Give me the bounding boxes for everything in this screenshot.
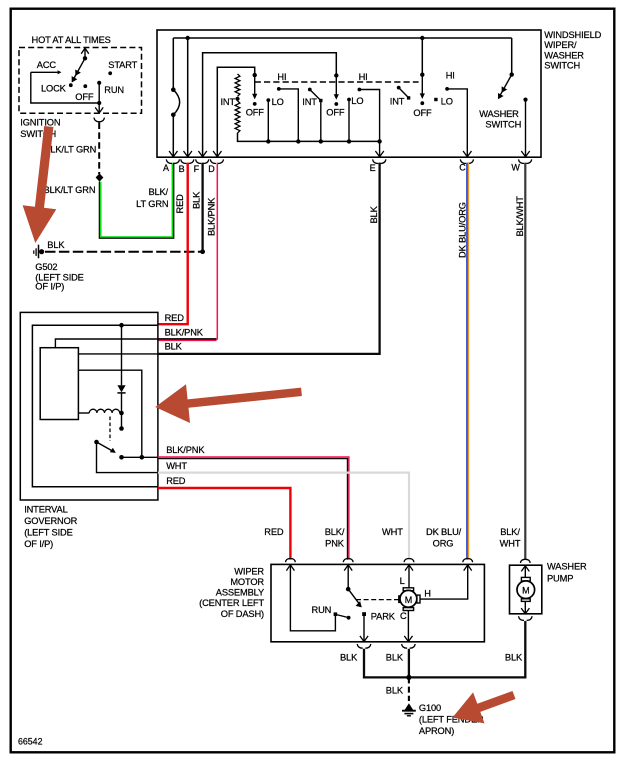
node bus-section3 junction — [420, 36, 424, 40]
svg-text:INT: INT — [302, 97, 317, 107]
svg-text:(CENTER LEFT: (CENTER LEFT — [199, 598, 264, 608]
svg-text:C: C — [459, 163, 466, 173]
terminal C connector — [460, 151, 473, 164]
contact LOCK — [69, 83, 73, 87]
circuit breaker in A leg — [172, 38, 174, 90]
svg-text:START: START — [108, 60, 137, 70]
terminal A connector — [166, 151, 179, 164]
relay coil K1 — [78, 412, 89, 414]
motor bottom connector C — [402, 644, 416, 648]
annotation arrow 2 — [155, 384, 302, 423]
svg-text:INT: INT — [390, 97, 405, 107]
svg-text:RED: RED — [165, 313, 185, 323]
svg-text:HI: HI — [446, 71, 455, 81]
wire WHT internal to motor L — [408, 565, 410, 588]
svg-text:WHT: WHT — [382, 527, 403, 537]
node coil-diode junction — [119, 411, 124, 416]
svg-text:PUMP: PUMP — [547, 573, 573, 583]
wire dashed BLK to G100 — [408, 677, 410, 701]
relay switch lever — [94, 440, 99, 445]
svg-text:BLK/: BLK/ — [148, 187, 168, 197]
svg-text:INTERVAL: INTERVAL — [24, 505, 67, 515]
svg-text:LO: LO — [441, 97, 453, 107]
motor terminal WHT connector — [404, 559, 414, 571]
svg-text:PARK: PARK — [371, 612, 396, 622]
wire B leg — [187, 38, 189, 157]
svg-text:ASSEMBLY: ASSEMBLY — [216, 588, 264, 598]
contact OFF 2 — [334, 102, 338, 106]
svg-text:(LEFT SIDE: (LEFT SIDE — [24, 528, 72, 538]
svg-text:D: D — [208, 164, 215, 174]
section 2 wiper arm — [334, 73, 338, 77]
wire DK BLU/ORG internal to motor H — [420, 565, 468, 599]
svg-text:LO: LO — [272, 97, 284, 107]
svg-text:WHT: WHT — [166, 461, 187, 471]
svg-text:W: W — [511, 163, 520, 173]
ignition switch lever (pivot to LOCK) — [83, 56, 87, 60]
contact washer W with wire — [523, 98, 527, 102]
wire lever contact to BLK/PNK exit — [122, 456, 158, 458]
svg-text:HOT AT ALL TIMES: HOT AT ALL TIMES — [32, 35, 111, 45]
section 1 wiper arm — [253, 73, 257, 77]
node bus-B junction — [186, 36, 190, 40]
svg-text:C: C — [400, 611, 407, 621]
terminal E connector — [373, 151, 386, 164]
section 3 wiper arm — [420, 73, 424, 77]
svg-text:OFF: OFF — [326, 107, 345, 117]
svg-text:BLK: BLK — [369, 205, 379, 223]
motor bottom connector PARK — [357, 644, 371, 648]
wire ACC loop to output — [31, 72, 99, 103]
svg-text:RED: RED — [175, 194, 185, 214]
wire DK BLU/ORG from C down to wiper motor — [466, 163, 468, 560]
wire BLK from E down to governor — [158, 163, 380, 354]
svg-text:GOVERNOR: GOVERNOR — [24, 516, 77, 526]
svg-text:WASHER: WASHER — [544, 50, 584, 60]
svg-text:WASHER: WASHER — [479, 109, 519, 119]
node contact stub — [119, 426, 124, 431]
dashed link lever to motor — [356, 599, 399, 601]
terminal D connector — [210, 151, 223, 164]
contact OFF 3 — [420, 101, 424, 105]
svg-text:SWITCH: SWITCH — [485, 119, 521, 129]
svg-text:RUN: RUN — [312, 605, 332, 615]
node lever contact — [119, 455, 124, 460]
contact HI 2 with wire to E — [358, 88, 362, 92]
contact INT 2 with wire — [308, 88, 312, 92]
wire BLK internal to block right — [78, 353, 157, 355]
governor inner box — [32, 325, 157, 487]
wire motor C to box bottom — [407, 611, 409, 642]
svg-text:66542: 66542 — [18, 736, 43, 746]
wire RED internal to RUN contact — [290, 565, 335, 631]
wire BLK from motor C to splice — [408, 649, 410, 678]
wire dashed BLK/LT GRN from ignition — [98, 123, 100, 175]
svg-text:RED: RED — [166, 476, 186, 486]
wire section 3 feed — [421, 38, 423, 75]
svg-text:WIPER/: WIPER/ — [544, 40, 577, 50]
contact PARK — [362, 612, 366, 616]
svg-text:BLK: BLK — [47, 240, 65, 250]
svg-text:OF I/P): OF I/P) — [35, 282, 64, 292]
svg-text:L: L — [400, 576, 405, 586]
svg-text:DK BLU/ORG: DK BLU/ORG — [458, 202, 468, 258]
wire BLK/LT GRN green to terminal A — [99, 163, 173, 239]
node junction on F wire — [200, 249, 205, 254]
svg-text:WHT: WHT — [500, 539, 521, 549]
svg-text:BLK/PNK: BLK/PNK — [166, 445, 205, 455]
wire WHT to motor — [158, 473, 409, 560]
svg-text:LOCK: LOCK — [41, 84, 67, 94]
svg-text:BLK: BLK — [191, 191, 201, 209]
wire resistor bottom to bus — [238, 133, 380, 141]
node contact line junction — [140, 455, 145, 460]
node INT 1 tap — [235, 97, 239, 101]
svg-text:WIPER: WIPER — [234, 566, 264, 576]
svg-text:M: M — [405, 595, 412, 605]
pump motor M2 — [524, 566, 526, 578]
svg-text:HI: HI — [359, 72, 368, 82]
svg-text:WINDSHIELD: WINDSHIELD — [544, 30, 601, 40]
svg-text:A: A — [163, 163, 169, 173]
svg-text:BLK/LT GRN: BLK/LT GRN — [44, 145, 96, 155]
wire A leg to terminal — [172, 115, 174, 157]
annotation arrow 3 — [453, 691, 516, 723]
wire washer switch feed — [511, 38, 513, 75]
wire PARK to box bottom — [363, 616, 365, 642]
motor terminal RED connector — [286, 559, 296, 571]
park switch lever — [347, 565, 349, 589]
node diode feed junction — [119, 323, 124, 328]
svg-text:BLK: BLK — [165, 342, 183, 352]
ground G100 symbol — [405, 703, 414, 710]
wire BLK/WHT from W down to washer pump — [524, 163, 526, 560]
svg-text:RUN: RUN — [104, 85, 124, 95]
wire BLK/PNK pair to motor — [158, 457, 349, 560]
svg-text:BLK/: BLK/ — [500, 527, 520, 537]
svg-text:BLK/PNK: BLK/PNK — [165, 328, 204, 338]
svg-text:MOTOR: MOTOR — [230, 577, 264, 587]
svg-text:APRON): APRON) — [419, 726, 454, 736]
IC block — [40, 348, 78, 420]
gang dashed line — [255, 81, 419, 83]
svg-text:SWITCH: SWITCH — [544, 61, 580, 71]
wire BLK/PNK from D down to governor (pink with black pair) — [216, 163, 218, 340]
diode D1 — [121, 325, 123, 385]
contact START — [108, 71, 112, 75]
pump top connector — [520, 559, 530, 571]
resistor INT 1 upper — [235, 74, 240, 96]
wire BLK from PARK to splice — [364, 649, 409, 678]
svg-text:BLK/WHT: BLK/WHT — [515, 196, 525, 237]
svg-text:BLK: BLK — [386, 686, 404, 696]
svg-text:BLK: BLK — [340, 653, 358, 663]
wire BLK/PNK internal to block top — [55, 339, 216, 348]
wire dashed BLK to F — [45, 251, 203, 253]
svg-text:BLK/PNK: BLK/PNK — [206, 197, 216, 236]
motor terminal DK BLU/ORG connector — [463, 559, 473, 571]
svg-text:LO: LO — [351, 96, 363, 106]
svg-text:F: F — [194, 164, 200, 174]
ground G502 symbol — [33, 250, 35, 254]
washer switch lever — [510, 72, 514, 76]
svg-text:ACC: ACC — [37, 60, 57, 70]
contact HI 3 with wire to C — [445, 87, 449, 91]
svg-text:B: B — [179, 164, 185, 174]
mechanical dashed link — [109, 417, 111, 442]
svg-text:INT: INT — [221, 97, 236, 107]
svg-text:PNK: PNK — [325, 539, 345, 549]
contact OFF — [83, 84, 87, 88]
wire pivot to WHT exit — [97, 442, 158, 473]
wire block to relay contact line — [78, 370, 141, 457]
contact HI 1 with wire — [277, 87, 281, 91]
washer pump box — [510, 565, 542, 614]
governor outer box — [20, 312, 158, 500]
svg-text:OFF: OFF — [413, 108, 432, 118]
wire D feed to section 1 pivot — [217, 67, 254, 157]
terminal B connector — [181, 151, 194, 164]
wire RED to motor — [158, 488, 291, 560]
svg-text:H: H — [424, 589, 431, 599]
wire BLK from F down to G502 junction — [201, 163, 203, 252]
wiper switch box — [157, 30, 541, 157]
svg-text:OF I/P): OF I/P) — [24, 539, 53, 549]
contact RUN — [334, 612, 338, 616]
terminal F connector — [196, 151, 209, 164]
svg-text:WASHER: WASHER — [547, 562, 587, 572]
motor M1 — [403, 588, 413, 591]
contact INT 3 stub — [397, 86, 401, 90]
svg-text:IGNITION: IGNITION — [20, 118, 60, 128]
svg-text:E: E — [370, 163, 376, 173]
wiper motor box — [271, 564, 484, 641]
svg-text:OFF: OFF — [246, 107, 265, 117]
svg-text:HI: HI — [277, 72, 286, 82]
contact LO 2 with wire — [347, 98, 351, 102]
svg-text:LT GRN: LT GRN — [136, 199, 168, 209]
wire feed arrow up from ignition pivot — [84, 50, 86, 59]
wire BLK washer pump to splice — [411, 621, 525, 677]
annotation arrow 1 — [23, 126, 57, 243]
svg-text:BLK: BLK — [386, 653, 404, 663]
contact LO 1 with wire — [266, 98, 270, 102]
node ground splice — [406, 675, 411, 680]
motor terminal BLK/PNK connector — [343, 559, 353, 571]
contact ACC with wire — [31, 71, 58, 73]
svg-text:DK BLU/: DK BLU/ — [426, 527, 462, 537]
wire F feed to section 2 pivot — [203, 53, 337, 157]
contact LO 3 stub — [434, 98, 437, 101]
resistor INT 1 lower — [235, 101, 240, 133]
svg-text:M: M — [522, 586, 529, 596]
ignition switch dashed box — [19, 48, 142, 114]
pump bottom wire and connector — [524, 601, 526, 613]
svg-text:OFF: OFF — [75, 92, 94, 102]
wire RED from B down to governor — [158, 163, 188, 325]
contact OFF 1 — [253, 102, 257, 106]
svg-text:RED: RED — [264, 527, 284, 537]
svg-text:G100: G100 — [419, 703, 441, 713]
svg-text:BLK/LT GRN: BLK/LT GRN — [44, 185, 96, 195]
svg-text:BLK: BLK — [505, 653, 523, 663]
svg-text:G502: G502 — [35, 262, 57, 272]
contact RUN with output wire — [97, 81, 101, 85]
svg-text:ORG: ORG — [433, 539, 454, 549]
splice diamond — [96, 173, 104, 181]
terminal W connector — [519, 151, 532, 164]
svg-text:BLK/: BLK/ — [325, 527, 345, 537]
wire feed bus from A — [173, 37, 511, 39]
svg-text:OF DASH): OF DASH) — [221, 609, 264, 619]
connector below ignition switch — [94, 118, 104, 122]
